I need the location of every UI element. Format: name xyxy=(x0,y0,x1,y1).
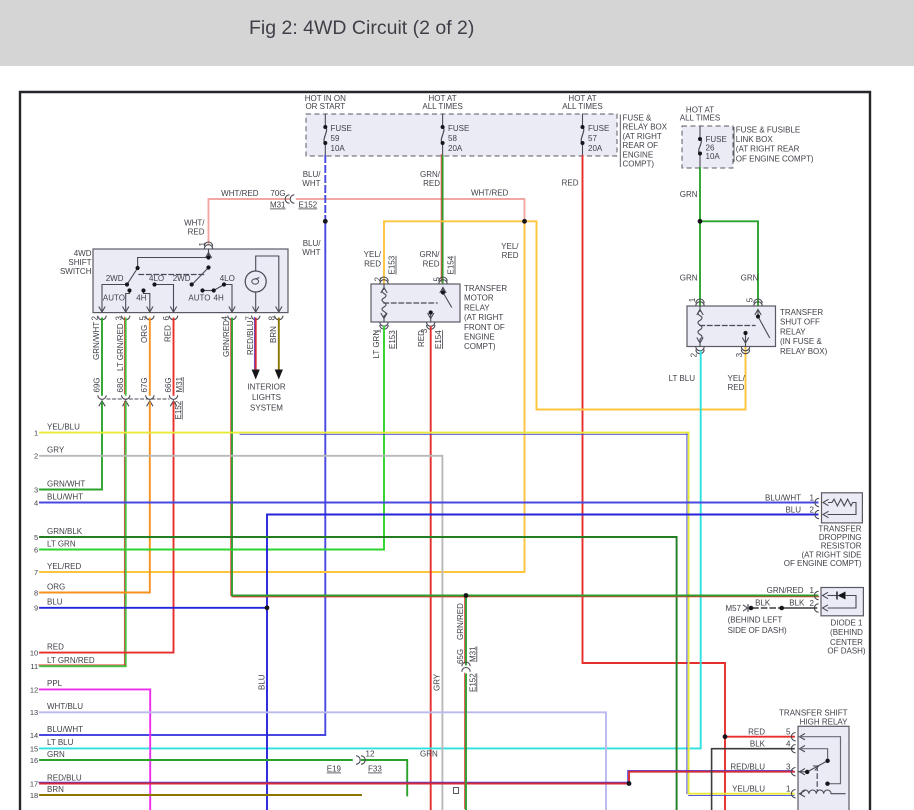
svg-text:GRY: GRY xyxy=(433,673,442,691)
svg-text:GRN: GRN xyxy=(680,274,698,283)
wire YEL/RED (splice to transfer shut off relay pin 3) xyxy=(525,221,746,409)
svg-text:Fig 2: 4WD Circuit (2 of 2): Fig 2: 4WD Circuit (2 of 2) xyxy=(249,17,474,39)
svg-text:TRANSFER: TRANSFER xyxy=(464,284,507,293)
svg-text:10A: 10A xyxy=(331,144,346,153)
resistor pin 2 xyxy=(823,511,829,517)
wire PPL row 12 xyxy=(40,689,150,810)
svg-text:5: 5 xyxy=(786,727,791,736)
svg-text:E152: E152 xyxy=(299,201,318,210)
svg-text:RED: RED xyxy=(423,260,440,269)
connector 69G/68G/67G/66G (M31-E152) below switch xyxy=(98,395,106,399)
switch wiper 1 xyxy=(128,268,138,283)
wire BLU row 9 xyxy=(40,607,267,609)
svg-text:2: 2 xyxy=(34,452,38,461)
svg-text:6: 6 xyxy=(162,316,171,321)
svg-text:FUSE: FUSE xyxy=(331,124,352,133)
high relay armature dashed link xyxy=(816,766,818,791)
svg-text:FUSE: FUSE xyxy=(448,124,469,133)
diode pin 2 xyxy=(823,605,829,611)
svg-text:BLU: BLU xyxy=(47,598,63,607)
svg-text:GRN/RED: GRN/RED xyxy=(767,586,804,595)
fuse F59 10A xyxy=(324,114,326,127)
diode element xyxy=(828,595,837,597)
svg-text:BRN: BRN xyxy=(269,326,278,343)
svg-text:E152: E152 xyxy=(174,400,183,419)
svg-text:GRN: GRN xyxy=(47,750,65,759)
svg-text:SIDE OF DASH): SIDE OF DASH) xyxy=(728,626,787,635)
shut off relay pin 5 top xyxy=(755,310,761,316)
svg-text:INTERIOR: INTERIOR xyxy=(247,383,285,392)
wire GRN row 16 (after connector, down at right) xyxy=(362,760,407,795)
svg-text:RED: RED xyxy=(728,383,745,392)
svg-text:RED: RED xyxy=(164,325,173,342)
motor relay coil xyxy=(383,284,385,289)
header band xyxy=(0,0,914,66)
svg-text:4: 4 xyxy=(221,316,230,321)
wire LT GRN row 6 xyxy=(39,549,41,551)
svg-text:(AT RIGHT REAR: (AT RIGHT REAR xyxy=(736,145,800,154)
wire LT GRN/RED row 11 xyxy=(39,665,41,667)
wire YEL/RED (splice down to row 7) xyxy=(40,221,525,572)
svg-text:BLK: BLK xyxy=(789,598,805,607)
svg-text:RED: RED xyxy=(748,727,765,736)
svg-text:GRN/: GRN/ xyxy=(420,170,441,179)
svg-text:AUTO: AUTO xyxy=(103,293,125,302)
transfer shut off relay box xyxy=(687,306,776,347)
svg-text:8: 8 xyxy=(268,316,277,321)
wire LT BLU (shut off relay pin 2 to row 15) xyxy=(40,352,701,749)
wire WHT/RED (fuse box area to 4WD shift switch pin 1) xyxy=(209,199,289,244)
svg-text:2WD: 2WD xyxy=(173,274,191,283)
svg-text:E154: E154 xyxy=(434,330,443,349)
svg-text:10A: 10A xyxy=(706,152,721,161)
svg-text:SYSTEM: SYSTEM xyxy=(250,404,283,413)
switch contact 4H (gang 1) to pin 5 xyxy=(144,291,150,313)
transfer dropping resistor box xyxy=(822,493,863,523)
shut off relay pin 1 top xyxy=(697,310,703,316)
high relay coil xyxy=(799,790,846,794)
svg-text:1: 1 xyxy=(810,493,815,502)
svg-text:3: 3 xyxy=(786,762,791,771)
switch contact 4LO (gang 2) to pin 4 xyxy=(214,285,224,291)
wire BLU/WHT row 4 xyxy=(40,502,818,504)
shut off relay coil xyxy=(699,306,701,311)
wire GRN row 16 xyxy=(40,759,352,761)
svg-text:12: 12 xyxy=(30,685,38,694)
svg-text:LT GRN: LT GRN xyxy=(47,539,76,548)
svg-text:(AT RIGHT: (AT RIGHT xyxy=(464,313,503,322)
svg-text:YEL/: YEL/ xyxy=(501,242,519,251)
svg-text:7: 7 xyxy=(34,568,38,577)
wire GRN/RED switch pin 4 (down to diode feed) xyxy=(230,319,232,596)
svg-text:BLK: BLK xyxy=(755,598,771,607)
svg-text:FRONT OF: FRONT OF xyxy=(464,323,505,332)
svg-text:GRN/WHT: GRN/WHT xyxy=(47,479,85,488)
wire LT GRN (motor relay pin 1 to row 6) xyxy=(40,327,384,550)
svg-text:59: 59 xyxy=(331,134,340,143)
switch internal: common feed xyxy=(208,249,210,258)
svg-text:LT BLU: LT BLU xyxy=(669,374,696,383)
svg-text:4LO: 4LO xyxy=(149,274,164,283)
high relay pin 4 xyxy=(800,746,806,752)
motor relay pin 1 bottom xyxy=(381,313,387,319)
svg-text:3: 3 xyxy=(34,485,38,494)
svg-text:WHT/RED: WHT/RED xyxy=(471,189,509,198)
fuse & fusible link box (dashed) xyxy=(682,126,733,168)
high relay pin 1 xyxy=(800,791,806,797)
svg-text:2: 2 xyxy=(810,599,815,608)
svg-text:66G: 66G xyxy=(164,377,173,392)
wire RED/BLU switch pin 7 to interior lights xyxy=(253,317,255,369)
svg-text:YEL/: YEL/ xyxy=(364,250,382,259)
svg-text:(BEHIND: (BEHIND xyxy=(830,628,863,637)
wire LT GRN/RED (connector to row 11) xyxy=(39,401,125,665)
svg-text:GRN/WHT: GRN/WHT xyxy=(92,322,101,360)
svg-text:OF ENGINE COMPT): OF ENGINE COMPT) xyxy=(736,154,814,163)
svg-text:E153: E153 xyxy=(388,330,397,349)
svg-text:ENGINE: ENGINE xyxy=(464,333,495,342)
svg-text:1: 1 xyxy=(688,297,697,302)
svg-text:M31: M31 xyxy=(270,201,286,210)
switch indicator lamp xyxy=(245,271,266,292)
svg-text:ALL TIMES: ALL TIMES xyxy=(562,102,602,111)
svg-text:3: 3 xyxy=(114,316,123,321)
svg-text:58: 58 xyxy=(448,134,457,143)
svg-text:57: 57 xyxy=(588,134,597,143)
svg-text:RED: RED xyxy=(562,179,579,188)
wire GRN branch (to transfer shut off relay pin 5) xyxy=(700,221,758,304)
svg-text:2: 2 xyxy=(689,352,698,357)
svg-text:16: 16 xyxy=(30,756,38,765)
high relay pin 5 xyxy=(800,734,806,740)
svg-text:(IN FUSE &: (IN FUSE & xyxy=(780,337,822,346)
resistor element R xyxy=(828,499,856,506)
fuse F57 20A xyxy=(582,114,584,127)
svg-text:13: 13 xyxy=(30,708,38,717)
svg-text:MOTOR: MOTOR xyxy=(464,294,494,303)
svg-text:5: 5 xyxy=(432,277,441,282)
svg-text:WHT: WHT xyxy=(302,179,320,188)
svg-text:YEL/BLU: YEL/BLU xyxy=(47,422,80,431)
svg-text:RED: RED xyxy=(364,260,381,269)
transfer shift high relay box xyxy=(798,726,849,810)
svg-text:OR START: OR START xyxy=(305,102,345,111)
svg-text:TRANSFER SHIFT: TRANSFER SHIFT xyxy=(779,709,848,718)
svg-text:5: 5 xyxy=(34,533,38,542)
wire BLK (high relay pin 4 down) xyxy=(712,749,794,810)
svg-text:BRN: BRN xyxy=(47,785,64,794)
svg-text:2WD: 2WD xyxy=(106,274,124,283)
svg-text:2: 2 xyxy=(91,316,100,321)
svg-text:BLU/WHT: BLU/WHT xyxy=(47,725,83,734)
svg-text:4: 4 xyxy=(34,498,38,507)
svg-text:18: 18 xyxy=(30,791,38,800)
wire BLU (transfer dropping resistor pin 2) xyxy=(267,515,818,810)
svg-text:RED/BLU: RED/BLU xyxy=(246,320,255,355)
svg-text:RELAY BOX): RELAY BOX) xyxy=(780,347,828,356)
svg-text:RELAY BOX: RELAY BOX xyxy=(623,123,668,132)
switch lamp wiring to pins 7 and 8 xyxy=(256,256,279,312)
svg-text:1: 1 xyxy=(198,242,207,247)
svg-text:20A: 20A xyxy=(448,144,463,153)
diode 1 box xyxy=(821,588,863,616)
switch pin 1 top xyxy=(205,253,211,259)
svg-text:RED: RED xyxy=(47,642,64,651)
switch contact 2WD (gang 1) to pin 2 xyxy=(102,285,127,313)
motor relay contact xyxy=(442,288,444,293)
svg-text:REAR OF: REAR OF xyxy=(623,141,659,150)
svg-text:5: 5 xyxy=(139,316,148,321)
wire BLU/WHT (down to row 14) xyxy=(40,221,325,735)
svg-text:BLU: BLU xyxy=(785,505,801,514)
wire BRN switch pin 8 to interior lights xyxy=(278,319,280,371)
switch contact AUTO (gang 1) to pin 3 xyxy=(126,291,130,313)
high relay pin 3 xyxy=(800,769,806,775)
svg-text:TRANSFER: TRANSFER xyxy=(780,308,823,317)
wire RED/BLU (row 17 to high relay pin 3) xyxy=(628,770,793,782)
svg-text:GRN/: GRN/ xyxy=(420,250,441,259)
svg-text:LIGHTS: LIGHTS xyxy=(252,393,281,402)
wire ORG switch pin 5 xyxy=(149,319,151,395)
svg-text:69G: 69G xyxy=(92,377,101,392)
svg-text:ORG: ORG xyxy=(47,582,65,591)
svg-text:17: 17 xyxy=(30,779,38,788)
svg-text:BLK: BLK xyxy=(750,739,766,748)
svg-text:SHUT OFF: SHUT OFF xyxy=(780,318,820,327)
svg-text:GRN/RED: GRN/RED xyxy=(456,603,465,640)
svg-text:70G: 70G xyxy=(270,189,285,198)
svg-text:OF DASH): OF DASH) xyxy=(827,647,866,656)
motor relay pin 3 bottom xyxy=(428,313,434,319)
svg-text:RED: RED xyxy=(502,251,519,260)
svg-text:E153: E153 xyxy=(388,255,397,274)
svg-text:FUSE &: FUSE & xyxy=(623,114,653,123)
transfer motor relay box xyxy=(371,284,460,322)
wire RED row 10 xyxy=(39,652,41,654)
svg-text:ALL TIMES: ALL TIMES xyxy=(680,114,720,123)
svg-text:4: 4 xyxy=(786,739,791,748)
motor relay linkage (dashed) xyxy=(384,302,437,304)
svg-text:65G: 65G xyxy=(456,649,465,664)
wire BLU/WHT row 14 xyxy=(39,734,41,736)
svg-text:YEL/RED: YEL/RED xyxy=(47,562,81,571)
svg-text:WHT/BLU: WHT/BLU xyxy=(47,702,83,711)
connector 65G (M31-E152) on GRN/RED xyxy=(462,662,470,666)
wire ORG row 8 xyxy=(39,592,41,594)
wire GRN/RED (fuse 58 to transfer motor relay pin 5) xyxy=(440,155,442,282)
svg-text:6: 6 xyxy=(34,545,38,554)
arrow to interior lights (pin 8) xyxy=(275,370,283,380)
wire YEL/RED row 7 xyxy=(39,571,41,573)
svg-text:2: 2 xyxy=(373,277,382,282)
shut off relay pin 2 bottom xyxy=(697,338,703,344)
wire BLK (splice to diode pin 2) xyxy=(782,607,817,609)
arrow to interior lights (pin 7) xyxy=(252,370,260,380)
svg-text:M31: M31 xyxy=(468,646,477,662)
wire BLU/WHT dashed (fuse 59 down) xyxy=(324,156,326,221)
svg-text:BLU/WHT: BLU/WHT xyxy=(765,493,801,502)
svg-text:5: 5 xyxy=(746,297,755,302)
wire GRN/WHT row 3 xyxy=(39,489,41,491)
connector 12 E19/F33 on row 16 xyxy=(361,756,365,764)
svg-text:PPL: PPL xyxy=(47,679,63,688)
svg-text:E152: E152 xyxy=(468,673,477,692)
svg-text:HIGH RELAY: HIGH RELAY xyxy=(800,718,849,727)
wire YEL/RED (splice to transfer motor relay pin 2) xyxy=(384,221,525,283)
svg-text:F33: F33 xyxy=(368,765,382,774)
svg-text:YEL/BLU: YEL/BLU xyxy=(732,784,765,793)
svg-text:ENGINE: ENGINE xyxy=(623,150,654,159)
wire GRN/RED (splice down through 65G connector) xyxy=(464,594,466,663)
svg-text:COMPT): COMPT) xyxy=(623,160,655,169)
svg-text:ALL TIMES: ALL TIMES xyxy=(422,102,462,111)
svg-text:M31: M31 xyxy=(175,376,184,392)
svg-text:7: 7 xyxy=(244,316,253,321)
switch contacts AUTO/4H (gang 2) xyxy=(203,290,214,292)
svg-text:ORG: ORG xyxy=(140,325,149,343)
svg-text:1: 1 xyxy=(786,784,791,793)
svg-text:(BEHIND LEFT: (BEHIND LEFT xyxy=(728,616,783,625)
wire YEL/BLU row 1 (to transfer shift high relay pin 1) xyxy=(240,433,689,435)
svg-text:FUSE & FUSIBLE: FUSE & FUSIBLE xyxy=(736,126,800,135)
wire RED (connector to row 10) xyxy=(40,403,174,653)
wire ORG (connector to row 8) xyxy=(40,403,150,593)
svg-text:M57: M57 xyxy=(725,604,741,613)
svg-text:BLU/WHT: BLU/WHT xyxy=(47,492,83,501)
switch wiper 2 xyxy=(194,268,209,284)
svg-text:LINK BOX: LINK BOX xyxy=(736,135,774,144)
wire GRN/BLK row 5 xyxy=(40,537,677,810)
svg-text:10: 10 xyxy=(30,649,38,658)
svg-text:12: 12 xyxy=(366,749,375,758)
svg-text:E19: E19 xyxy=(327,765,342,774)
fuse & relay box (dashed) xyxy=(306,114,617,156)
diode pin 1 xyxy=(823,592,829,598)
svg-text:RED: RED xyxy=(417,330,426,347)
svg-text:14: 14 xyxy=(30,731,38,740)
shut off relay pin 3 bottom xyxy=(742,338,748,344)
shut off relay linkage (dashed) xyxy=(700,325,755,327)
svg-text:SWITCH: SWITCH xyxy=(60,267,92,276)
svg-text:SHIFT: SHIFT xyxy=(68,258,91,267)
wire GRN/RED (switch pin 4 feed to diode 1 pin 1) xyxy=(233,596,819,598)
switch bottom pins 2,3,5,6,4,7,8 xyxy=(99,307,105,313)
shut off relay contact xyxy=(757,310,759,317)
svg-text:LT GRN: LT GRN xyxy=(372,330,381,359)
svg-text:FUSE: FUSE xyxy=(588,124,609,133)
4WD shift switch box xyxy=(93,249,288,313)
svg-text:YEL/: YEL/ xyxy=(728,374,746,383)
svg-text:1: 1 xyxy=(810,586,815,595)
svg-text:WHT/RED: WHT/RED xyxy=(221,189,259,198)
svg-text:COMPT): COMPT) xyxy=(464,342,496,351)
svg-text:20A: 20A xyxy=(588,144,603,153)
svg-text:68G: 68G xyxy=(116,377,125,392)
svg-text:RELAY: RELAY xyxy=(464,303,490,312)
svg-text:GRN/BLK: GRN/BLK xyxy=(47,527,83,536)
svg-text:8: 8 xyxy=(34,588,38,597)
svg-text:GRY: GRY xyxy=(47,446,65,455)
svg-text:WHT: WHT xyxy=(302,248,320,257)
wire GRN/WHT switch pin 2 xyxy=(101,319,103,395)
wire RED branch to high relay pin 5 xyxy=(725,736,794,738)
svg-text:GRN: GRN xyxy=(741,274,759,283)
svg-text:BLU/: BLU/ xyxy=(303,239,322,248)
svg-text:GRN/RED: GRN/RED xyxy=(222,320,231,357)
switch contact 4LO (gang 1) to pin 6 xyxy=(155,285,174,313)
wire RED (fuse 57 to transfer shift high relay pin 5 and below) xyxy=(583,156,726,810)
wire BRN row 18 xyxy=(40,794,361,796)
svg-text:15: 15 xyxy=(30,744,38,753)
cut-off connector stub at bottom xyxy=(454,788,459,794)
svg-text:4H: 4H xyxy=(136,293,146,302)
fuse F26 10A xyxy=(699,126,701,139)
svg-text:2: 2 xyxy=(810,505,815,514)
svg-text:4LO: 4LO xyxy=(220,274,235,283)
svg-text:RED/BLU: RED/BLU xyxy=(730,762,765,771)
svg-text:LT GRN/RED: LT GRN/RED xyxy=(116,323,125,371)
svg-text:E154: E154 xyxy=(447,255,456,274)
wire RED/BLU row 17 xyxy=(39,781,628,783)
svg-text:RED: RED xyxy=(423,179,440,188)
wire GRN (fuse 26 to transfer shut off relay pin 1) xyxy=(699,168,701,305)
wire BLK dashed (M57 to splice) xyxy=(753,607,780,609)
switch mechanical linkage (dashed) xyxy=(139,274,206,276)
svg-text:11: 11 xyxy=(30,662,38,671)
svg-text:3: 3 xyxy=(735,352,744,357)
wire RED switch pin 6 xyxy=(173,319,175,395)
svg-text:1: 1 xyxy=(34,429,38,438)
fuse F58 20A xyxy=(442,114,444,127)
wire GRN/WHT (connector to row 3) xyxy=(40,403,102,490)
svg-text:GRN: GRN xyxy=(680,190,698,199)
svg-text:GRN: GRN xyxy=(420,749,438,758)
svg-text:OF ENGINE COMPT): OF ENGINE COMPT) xyxy=(784,559,862,568)
svg-text:BLU/: BLU/ xyxy=(303,170,322,179)
wire LT GRN/RED switch pin 3 xyxy=(123,317,125,393)
svg-text:4WD: 4WD xyxy=(74,249,92,258)
svg-text:LT BLU: LT BLU xyxy=(47,738,74,747)
wire LT BLU row 15 xyxy=(39,747,41,749)
svg-text:BLU: BLU xyxy=(257,674,266,690)
svg-text:RED: RED xyxy=(188,228,205,237)
svg-text:WHT/: WHT/ xyxy=(184,219,205,228)
svg-text:AUTO: AUTO xyxy=(188,293,210,302)
motor relay pin 5 top xyxy=(440,288,446,294)
svg-text:LT GRN/RED: LT GRN/RED xyxy=(47,656,95,665)
svg-text:(AT RIGHT: (AT RIGHT xyxy=(623,132,662,141)
svg-text:4H: 4H xyxy=(214,293,224,302)
motor relay pin 2 top xyxy=(381,288,387,294)
svg-text:RELAY: RELAY xyxy=(780,327,806,336)
junction dots layer xyxy=(323,125,327,129)
svg-text:67G: 67G xyxy=(140,377,149,392)
wire RED (motor relay pin 3 down) xyxy=(430,327,432,810)
svg-text:RED/BLU: RED/BLU xyxy=(47,773,82,782)
resistor pin 1 xyxy=(823,499,829,505)
svg-text:DIODE 1: DIODE 1 xyxy=(830,619,863,628)
svg-text:9: 9 xyxy=(34,604,38,613)
wire WHT/BLU row 13 xyxy=(40,712,606,810)
connector 70G M31 / E152 on WHT/RED xyxy=(285,195,289,203)
wire GRY row 2 xyxy=(40,456,442,810)
high relay internal contact network xyxy=(799,737,841,784)
